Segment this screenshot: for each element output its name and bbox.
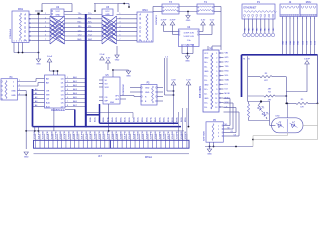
svg-text:4R7: 4R7 xyxy=(268,99,271,101)
svg-text:B13L: B13L xyxy=(125,116,127,122)
svg-text:PC2: PC2 xyxy=(309,41,311,45)
svg-text:AD3: AD3 xyxy=(73,88,77,91)
svg-text:TD3: TD3 xyxy=(255,28,257,31)
svg-text:6: 6 xyxy=(67,97,68,99)
svg-text:AD4: AD4 xyxy=(73,92,77,95)
svg-text:RN1: RN1 xyxy=(18,8,24,11)
svg-text:B26L: B26L xyxy=(172,116,174,122)
svg-text:IO17PB: IO17PB xyxy=(125,131,127,139)
svg-text:5.0VF 5.0V: 5.0VF 5.0V xyxy=(183,36,194,38)
svg-text:6: 6 xyxy=(26,40,27,42)
svg-text:RAMModule: RAMModule xyxy=(51,109,65,112)
svg-text:B68L: B68L xyxy=(146,116,148,122)
svg-text:11: 11 xyxy=(215,98,217,100)
svg-text:PB1: PB1 xyxy=(285,41,287,44)
svg-text:IO93PB: IO93PB xyxy=(73,131,75,139)
svg-text:IO17PB: IO17PB xyxy=(38,131,40,139)
svg-text:B39L: B39L xyxy=(90,116,92,122)
svg-text:IO55PB: IO55PB xyxy=(56,131,58,139)
svg-text:2: 2 xyxy=(216,57,217,59)
svg-text:4R7: 4R7 xyxy=(268,88,271,90)
svg-text:IO55PB: IO55PB xyxy=(142,131,144,139)
svg-text:4: 4 xyxy=(120,26,121,28)
svg-text:IO48NB: IO48NB xyxy=(94,131,96,139)
svg-text:7: 7 xyxy=(120,39,121,41)
svg-text:4: 4 xyxy=(146,40,147,42)
svg-text:3.3V: 3.3V xyxy=(171,80,176,82)
svg-text:IO00NB: IO00NB xyxy=(34,131,36,139)
svg-text:GND: GND xyxy=(204,57,209,59)
svg-text:7: 7 xyxy=(67,101,68,103)
svg-text:2: 2 xyxy=(16,40,17,42)
svg-text:E: E xyxy=(24,30,26,34)
svg-text:5: 5 xyxy=(67,93,68,95)
svg-text:A4: A4 xyxy=(35,104,37,107)
svg-text:IO86NB: IO86NB xyxy=(112,131,114,139)
svg-text:GND: GND xyxy=(11,90,16,92)
svg-text:A1: A1 xyxy=(35,92,37,95)
svg-text:D3-: D3- xyxy=(204,107,207,109)
svg-text:3: 3 xyxy=(216,62,217,64)
svg-text:RN4: RN4 xyxy=(142,9,148,12)
svg-text:TD4: TD4 xyxy=(259,28,261,31)
svg-text:GND: GND xyxy=(207,154,212,156)
svg-text:AD1: AD1 xyxy=(73,80,77,83)
svg-text:B42L: B42L xyxy=(138,116,140,122)
svg-text:B97L: B97L xyxy=(116,116,118,122)
svg-text:AD7: AD7 xyxy=(73,104,77,107)
svg-text:SCK: SCK xyxy=(105,87,110,89)
svg-text:3: 3 xyxy=(67,85,68,87)
svg-text:2: 2 xyxy=(67,81,68,83)
svg-text:OE: OE xyxy=(46,90,50,92)
svg-text:C: C xyxy=(24,21,26,25)
svg-text:MOSI: MOSI xyxy=(225,93,231,95)
svg-text:LED: LED xyxy=(275,115,280,117)
svg-text:IO79PB: IO79PB xyxy=(151,131,153,139)
svg-text:D1-: D1- xyxy=(204,80,207,82)
svg-text:A: A xyxy=(24,12,26,16)
svg-text:B55L: B55L xyxy=(185,116,187,122)
svg-text:3.3VF: 3.3VF xyxy=(161,20,167,22)
svg-text:3.3V: 3.3V xyxy=(201,20,206,22)
svg-text:VCC: VCC xyxy=(105,11,110,13)
svg-text:5.0V: 5.0V xyxy=(210,20,215,22)
svg-text:B42L: B42L xyxy=(94,116,96,122)
svg-text:GND: GND xyxy=(126,76,131,78)
svg-text:VIN: VIN xyxy=(225,53,229,55)
svg-text:B: B xyxy=(24,17,26,21)
svg-text:A3: A3 xyxy=(35,100,37,103)
svg-text:7: 7 xyxy=(216,80,217,82)
svg-text:13: 13 xyxy=(215,107,217,109)
svg-text:3.3VF: 3.3VF xyxy=(304,59,310,61)
svg-text:TX-: TX- xyxy=(88,17,92,19)
svg-text:3: 3 xyxy=(120,22,121,24)
svg-text:IO86NB: IO86NB xyxy=(69,131,71,139)
svg-text:2: 2 xyxy=(218,129,219,131)
svg-text:6: 6 xyxy=(45,35,46,37)
svg-text:3: 3 xyxy=(144,40,145,42)
svg-text:A2: A2 xyxy=(35,96,37,99)
svg-text:AD5: AD5 xyxy=(73,96,77,99)
svg-text:1: 1 xyxy=(216,53,217,55)
svg-text:IO00NB: IO00NB xyxy=(164,131,166,139)
svg-text:AD6: AD6 xyxy=(73,100,77,103)
svg-text:1.0uF: 1.0uF xyxy=(47,56,53,58)
svg-text:IO24NB: IO24NB xyxy=(86,131,88,139)
svg-text:TD5: TD5 xyxy=(263,28,265,31)
svg-text:D: D xyxy=(24,25,26,29)
svg-text:4: 4 xyxy=(218,136,219,138)
svg-text:B26L: B26L xyxy=(129,116,131,122)
svg-text:VCC: VCC xyxy=(204,53,209,55)
svg-text:B84L: B84L xyxy=(155,116,157,122)
svg-text:B2B CONN: B2B CONN xyxy=(200,86,202,98)
svg-text:TD2: TD2 xyxy=(251,28,253,31)
svg-text:2: 2 xyxy=(141,40,142,42)
svg-text:GND: GND xyxy=(204,71,209,73)
svg-text:GND: GND xyxy=(110,102,115,104)
svg-text:RD-: RD- xyxy=(78,26,82,28)
svg-text:A0: A0 xyxy=(35,88,37,91)
svg-text:IO31PB: IO31PB xyxy=(133,131,135,139)
svg-text:D2-: D2- xyxy=(204,93,207,95)
svg-text:4: 4 xyxy=(21,40,22,42)
svg-text:8: 8 xyxy=(67,105,68,107)
svg-text:10: 10 xyxy=(215,93,217,95)
svg-text:D: D xyxy=(139,25,141,29)
svg-text:GND: GND xyxy=(105,14,110,16)
svg-text:6: 6 xyxy=(120,35,121,37)
svg-text:PB2: PB2 xyxy=(288,41,290,44)
svg-text:3: 3 xyxy=(218,132,219,134)
svg-text:R4: R4 xyxy=(268,91,270,93)
svg-text:GND: GND xyxy=(145,92,150,94)
svg-text:3.3V: 3.3V xyxy=(106,58,111,60)
svg-text:678: 678 xyxy=(300,107,303,109)
svg-text:1: 1 xyxy=(67,77,68,79)
svg-text:GND: GND xyxy=(145,87,150,89)
svg-text:VCC: VCC xyxy=(55,11,60,13)
svg-text:5: 5 xyxy=(120,30,121,32)
svg-text:IO24NB: IO24NB xyxy=(172,131,174,139)
svg-text:B00L: B00L xyxy=(164,116,166,122)
svg-text:B71L: B71L xyxy=(107,116,109,122)
svg-text:IO17PB: IO17PB xyxy=(168,131,170,139)
svg-text:ETHERNET: ETHERNET xyxy=(244,7,257,10)
svg-text:B68L: B68L xyxy=(103,116,105,122)
svg-text:PC0: PC0 xyxy=(301,41,303,45)
svg-text:B55L: B55L xyxy=(99,116,101,122)
svg-text:B39L: B39L xyxy=(133,116,135,122)
svg-text:PC3: PC3 xyxy=(313,41,315,45)
svg-text:5: 5 xyxy=(216,71,217,73)
svg-text:E: E xyxy=(139,30,141,34)
svg-text:3: 3 xyxy=(19,40,20,42)
svg-text:GND: GND xyxy=(115,60,120,62)
svg-text:GND: GND xyxy=(204,84,209,86)
svg-text:GND: GND xyxy=(36,64,41,66)
svg-text:1: 1 xyxy=(14,40,15,42)
svg-text:IO31PB: IO31PB xyxy=(90,131,92,139)
svg-text:TXD: TXD xyxy=(225,66,230,68)
svg-text:IO31PB: IO31PB xyxy=(177,131,179,139)
svg-text:5: 5 xyxy=(24,40,25,42)
svg-text:RXD: RXD xyxy=(225,71,230,73)
svg-text:B42L: B42L xyxy=(181,116,183,122)
svg-text:PB3: PB3 xyxy=(292,41,294,44)
svg-text:IO48NB: IO48NB xyxy=(51,131,53,139)
svg-text:IO24NB: IO24NB xyxy=(129,131,131,139)
svg-text:1: 1 xyxy=(120,13,121,15)
svg-text:A: A xyxy=(139,12,141,16)
svg-text:IO93PB: IO93PB xyxy=(159,131,161,139)
svg-text:C: C xyxy=(139,21,141,25)
svg-text:D0-: D0- xyxy=(204,66,207,68)
svg-text:5: 5 xyxy=(149,40,150,42)
svg-text:IO86NB: IO86NB xyxy=(155,131,157,139)
svg-text:MSP HDR: MSP HDR xyxy=(203,131,205,141)
svg-text:GND: GND xyxy=(55,14,60,16)
svg-text:SDA: SDA xyxy=(225,79,230,82)
svg-text:8: 8 xyxy=(216,84,217,86)
svg-text:IO62NB: IO62NB xyxy=(103,131,105,139)
svg-text:TD-: TD- xyxy=(78,17,82,19)
svg-text:3.3VF: 3.3VF xyxy=(170,20,176,22)
svg-text:GND: GND xyxy=(204,98,209,100)
svg-text:PC1: PC1 xyxy=(305,41,307,45)
svg-text:1: 1 xyxy=(45,13,46,15)
svg-text:H1: H1 xyxy=(243,58,245,60)
svg-text:SHD: SHD xyxy=(77,39,82,41)
svg-text:SO: SO xyxy=(105,83,108,85)
svg-text:2: 2 xyxy=(45,17,46,19)
svg-text:IO24NB: IO24NB xyxy=(43,131,45,139)
svg-text:1: 1 xyxy=(139,40,140,42)
svg-text:B71L: B71L xyxy=(151,116,153,122)
svg-text:IO79PB: IO79PB xyxy=(107,131,109,139)
svg-text:TD6: TD6 xyxy=(267,28,269,31)
svg-text:AT45DB161: AT45DB161 xyxy=(121,84,124,96)
svg-text:5: 5 xyxy=(45,30,46,32)
svg-text:IO55PB: IO55PB xyxy=(99,131,101,139)
svg-text:RX-: RX- xyxy=(88,26,92,28)
svg-text:AD2: AD2 xyxy=(73,84,77,87)
svg-text:6: 6 xyxy=(151,40,152,42)
svg-text:B39L: B39L xyxy=(177,116,179,122)
svg-text:CE: CE xyxy=(46,98,50,100)
svg-text:CONN4 A: CONN4 A xyxy=(9,29,12,39)
svg-text:4: 4 xyxy=(67,89,68,91)
svg-text:GND: GND xyxy=(186,20,191,22)
svg-text:B55L: B55L xyxy=(142,116,144,122)
svg-text:CONN4 B: CONN4 B xyxy=(155,15,157,25)
svg-text:12: 12 xyxy=(215,102,217,104)
svg-text:WE: WE xyxy=(46,94,50,96)
svg-text:PB4: PB4 xyxy=(296,41,298,44)
svg-text:IO62NB: IO62NB xyxy=(60,131,62,139)
svg-text:FPGA: FPGA xyxy=(145,155,152,159)
svg-text:5.0V: 5.0V xyxy=(186,80,191,82)
svg-text:3.3VF 3.3V: 3.3VF 3.3V xyxy=(183,32,194,34)
svg-text:IO93PB: IO93PB xyxy=(116,131,118,139)
svg-text:PB0: PB0 xyxy=(281,41,283,44)
svg-text:B00L: B00L xyxy=(120,116,122,122)
svg-text:IO00NB: IO00NB xyxy=(77,131,79,139)
svg-text:4: 4 xyxy=(45,26,46,28)
svg-text:2: 2 xyxy=(120,17,121,19)
svg-text:B13L: B13L xyxy=(168,116,170,122)
svg-text:IO79PB: IO79PB xyxy=(64,131,66,139)
svg-text:B84L: B84L xyxy=(112,116,114,122)
svg-text:7: 7 xyxy=(45,39,46,41)
svg-text:TD1: TD1 xyxy=(247,28,249,31)
svg-text:TD0: TD0 xyxy=(243,28,245,31)
svg-text:GND: GND xyxy=(11,95,16,97)
svg-text:3: 3 xyxy=(45,22,46,24)
svg-text:4R7: 4R7 xyxy=(264,80,267,82)
svg-text:1: 1 xyxy=(218,125,219,127)
svg-text:1.3n: 1.3n xyxy=(187,40,191,42)
svg-text:9: 9 xyxy=(216,89,217,91)
svg-text:B97L: B97L xyxy=(159,116,161,122)
svg-text:GND: GND xyxy=(185,61,190,63)
svg-text:B: B xyxy=(139,17,141,21)
svg-text:TD7: TD7 xyxy=(271,28,273,31)
svg-text:IO62NB: IO62NB xyxy=(146,131,148,139)
svg-text:IO48NB: IO48NB xyxy=(181,131,183,139)
svg-text:IO00NB: IO00NB xyxy=(120,131,122,139)
svg-text:IO55PB: IO55PB xyxy=(185,131,187,139)
svg-text:GND: GND xyxy=(24,157,29,159)
svg-text:IO48NB: IO48NB xyxy=(138,131,140,139)
svg-text:MCU: MCU xyxy=(306,1,312,4)
svg-text:IO17PB: IO17PB xyxy=(82,131,84,139)
svg-text:2.2uF: 2.2uF xyxy=(99,54,105,56)
svg-text:6: 6 xyxy=(216,75,217,77)
svg-text:IO31PB: IO31PB xyxy=(47,131,49,139)
svg-text:R3: R3 xyxy=(265,73,267,75)
svg-text:4: 4 xyxy=(216,66,217,68)
svg-text:AD0: AD0 xyxy=(73,76,77,79)
